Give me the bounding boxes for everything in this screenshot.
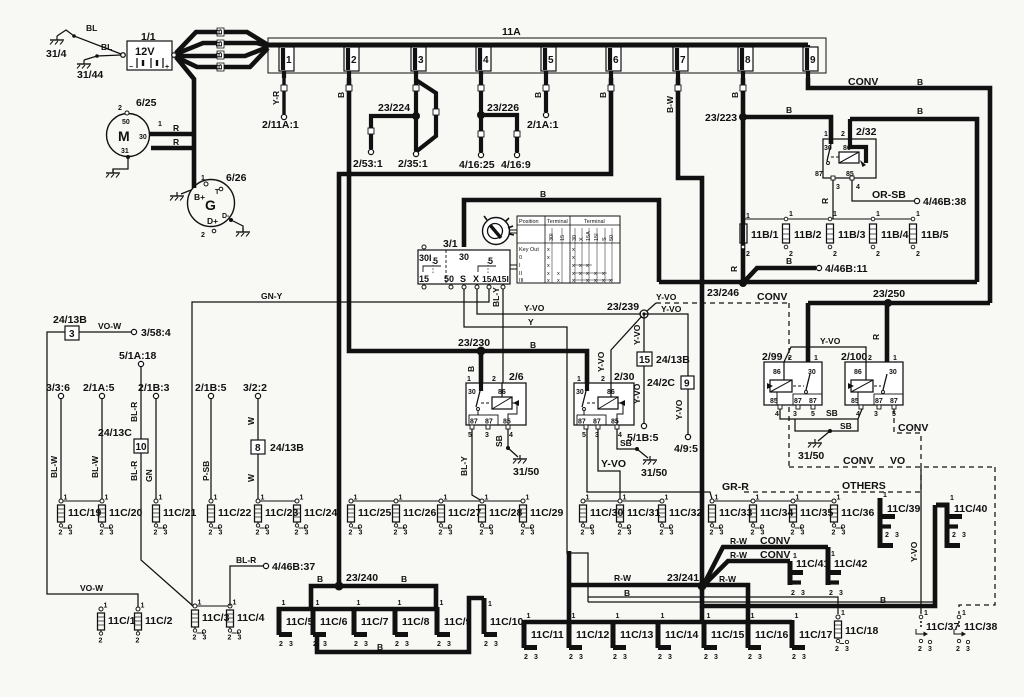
svg-text:50: 50 xyxy=(444,274,454,284)
svg-text:BL-W: BL-W xyxy=(90,455,100,478)
svg-text:CONV: CONV xyxy=(757,291,787,303)
wire Y-VO bridge 2/99 pin2 to 2/100 pin2 xyxy=(784,336,866,362)
svg-text:31: 31 xyxy=(121,148,129,155)
svg-text:15I: 15I xyxy=(497,274,509,284)
svg-text:8: 8 xyxy=(745,55,751,66)
svg-text:x: x xyxy=(547,263,550,269)
wire BL-R 5/1A:18 to box 10 xyxy=(129,367,141,439)
svg-text:30: 30 xyxy=(468,389,476,396)
wire thick 23/240 right branch xyxy=(339,586,436,611)
wire R lower xyxy=(151,137,196,148)
svg-text:3: 3 xyxy=(966,646,970,653)
wire pin1 link 11C/23-24 xyxy=(258,500,297,502)
svg-text:3/3:6: 3/3:6 xyxy=(46,382,70,394)
svg-text:50: 50 xyxy=(122,119,130,126)
svg-text:11C/11: 11C/11 xyxy=(531,629,564,641)
svg-text:23/224: 23/224 xyxy=(378,102,410,114)
relay 2/6 xyxy=(466,371,526,439)
connector 11C/37 xyxy=(916,610,959,653)
fuse 6 xyxy=(606,45,621,78)
svg-text:86: 86 xyxy=(773,369,781,376)
svg-text:B: B xyxy=(786,256,792,266)
connector 11C/39 xyxy=(880,492,920,548)
node 23/250 xyxy=(873,288,905,307)
svg-text:15: 15 xyxy=(419,274,429,284)
connector 11C/13 xyxy=(613,613,653,661)
svg-text:R-W: R-W xyxy=(730,550,748,560)
connector 11C/20 xyxy=(99,495,143,537)
fuse 4 xyxy=(476,45,491,78)
svg-text:2: 2 xyxy=(601,376,605,383)
svg-text:R: R xyxy=(820,198,830,204)
wire thin to 11C/18 xyxy=(588,597,838,614)
svg-text:3: 3 xyxy=(928,646,932,653)
wire BL-R 11C/4 to 4/46B:37 xyxy=(230,555,315,606)
svg-text:4: 4 xyxy=(775,411,779,418)
svg-text:M: M xyxy=(118,128,130,144)
svg-text:10: 10 xyxy=(136,442,148,453)
svg-text:VO: VO xyxy=(890,455,905,467)
svg-text:x: x xyxy=(586,263,589,269)
svg-text:11C/22: 11C/22 xyxy=(218,507,251,519)
svg-text:1: 1 xyxy=(916,211,920,218)
connector 11C/34 xyxy=(750,495,794,537)
svg-text:2: 2 xyxy=(952,532,956,539)
svg-text:2/1A:5: 2/1A:5 xyxy=(83,382,115,394)
svg-text:B: B xyxy=(540,189,546,199)
fuse 1 xyxy=(279,45,294,78)
svg-text:4: 4 xyxy=(856,184,860,191)
svg-text:31/44: 31/44 xyxy=(77,69,103,81)
bus bar xyxy=(268,43,808,48)
wire SB between relay 85 pins xyxy=(780,408,862,419)
wire B from ignition 30 xyxy=(464,189,659,282)
svg-text:4/46B:38: 4/46B:38 xyxy=(923,196,966,208)
svg-text:11C/34: 11C/34 xyxy=(760,507,793,519)
terminal 2/1B:3 xyxy=(138,382,170,399)
svg-text:GN-Y: GN-Y xyxy=(261,291,283,301)
svg-text:1: 1 xyxy=(814,355,818,362)
node 23/239 xyxy=(607,301,648,318)
connector 11C/17 xyxy=(792,613,832,661)
svg-text:11C/27: 11C/27 xyxy=(448,507,481,519)
wire Y-R fuse1 to 2/11A:1 xyxy=(262,78,299,131)
wire Y-VO 2/30 pin3 to 11C/31 xyxy=(598,429,626,499)
connector 11C/28 xyxy=(479,495,523,537)
svg-text:R-W: R-W xyxy=(614,573,632,583)
svg-text:23/223: 23/223 xyxy=(705,112,737,124)
svg-text:2/53:1: 2/53:1 xyxy=(353,158,383,170)
relay 2/30 xyxy=(574,371,635,439)
wire R 2/32 pin3 to 11B/3 xyxy=(820,180,833,219)
svg-text:+: + xyxy=(165,64,169,71)
svg-text:x: x xyxy=(572,278,575,284)
fuse 11B/4 xyxy=(870,211,909,258)
svg-text:Y-VO: Y-VO xyxy=(596,351,606,372)
wire SB 2/30 pin4 to ground 31/50 xyxy=(617,429,648,458)
ground below M xyxy=(106,159,128,178)
wire BL-R box10 to 11C/3 xyxy=(129,453,193,606)
ground 31/44 xyxy=(77,54,121,81)
svg-text:Y-R: Y-R xyxy=(271,91,281,105)
connector 11C/21 xyxy=(153,495,197,537)
connector 11C/26 xyxy=(393,495,437,537)
connector 11C/16 xyxy=(748,613,788,661)
svg-text:2/11A:1: 2/11A:1 xyxy=(262,119,299,131)
svg-text:15: 15 xyxy=(639,355,651,366)
svg-text:3: 3 xyxy=(494,641,498,648)
wire B thick bottom to 11C/40 xyxy=(702,505,935,606)
switch position table xyxy=(517,216,620,284)
svg-text:23/241: 23/241 xyxy=(667,572,699,584)
motor M 6/25 xyxy=(107,97,163,159)
svg-text:CONV: CONV xyxy=(843,455,873,467)
svg-text:D-: D- xyxy=(222,213,230,220)
svg-text:2: 2 xyxy=(916,251,920,258)
svg-text:B: B xyxy=(214,29,224,35)
svg-text:3: 3 xyxy=(895,532,899,539)
wire pin1 link 11C/19-20 xyxy=(61,500,102,502)
svg-text:2: 2 xyxy=(492,376,496,383)
svg-text:SB: SB xyxy=(826,408,838,418)
svg-text:x: x xyxy=(547,247,550,253)
connector 11C/35 xyxy=(790,495,834,537)
wire B fuse6 down-left to 23/230 xyxy=(339,78,614,586)
svg-text:6: 6 xyxy=(613,55,619,66)
svg-text:1: 1 xyxy=(824,131,828,138)
svg-text:x: x xyxy=(579,271,582,277)
connector 11C/31 xyxy=(617,495,661,537)
svg-text:3: 3 xyxy=(874,411,878,418)
svg-text:2/99: 2/99 xyxy=(762,351,783,363)
svg-text:3: 3 xyxy=(845,646,849,653)
node 23/224 xyxy=(378,102,420,120)
node 23/230 xyxy=(458,337,490,356)
svg-text:87: 87 xyxy=(809,398,817,405)
connector 11C/27 xyxy=(438,495,482,537)
svg-text:x: x xyxy=(557,271,560,277)
key symbol xyxy=(483,216,518,269)
wire R-W horizontal through 23/241 xyxy=(569,573,748,622)
svg-text:S: S xyxy=(460,274,466,284)
svg-text:24/2C: 24/2C xyxy=(647,377,675,389)
svg-text:11C/3: 11C/3 xyxy=(202,612,230,624)
svg-text:B: B xyxy=(730,92,740,98)
svg-text:2/6: 2/6 xyxy=(509,371,524,383)
svg-text:11C/16: 11C/16 xyxy=(755,629,788,641)
connector 11C/5 xyxy=(279,600,314,648)
fuse box 11A outline xyxy=(268,26,826,73)
svg-text:23/250: 23/250 xyxy=(873,288,905,300)
node 23/240 xyxy=(317,572,407,591)
svg-text:2: 2 xyxy=(876,251,880,258)
svg-text:11C/20: 11C/20 xyxy=(109,507,142,519)
fuse 11B/2 xyxy=(783,211,822,258)
svg-text:CONV: CONV xyxy=(760,549,790,561)
svg-text:8: 8 xyxy=(255,443,261,454)
svg-text:11C/19: 11C/19 xyxy=(68,507,101,519)
svg-text:1: 1 xyxy=(789,211,793,218)
svg-text:11C/6: 11C/6 xyxy=(320,616,348,628)
svg-text:B: B xyxy=(377,642,383,652)
connector 11C/7 xyxy=(354,600,389,648)
svg-text:2: 2 xyxy=(918,646,922,653)
svg-text:11C/8: 11C/8 xyxy=(402,616,430,628)
wire W box8 to 11C/23 xyxy=(246,454,258,499)
svg-text:3/2:2: 3/2:2 xyxy=(243,382,267,394)
svg-text:2: 2 xyxy=(118,105,122,112)
wire B fuse4 to 4/16:25 xyxy=(459,78,495,171)
svg-text:G: G xyxy=(205,197,216,213)
wire R-W CONV lower to 11C/41 xyxy=(704,549,790,585)
svg-text:VO-W: VO-W xyxy=(98,321,122,331)
svg-text:B: B xyxy=(917,77,923,87)
svg-text:30: 30 xyxy=(576,389,584,396)
svg-text:24/13C: 24/13C xyxy=(98,427,132,439)
dashed OTHERS xyxy=(744,470,921,492)
svg-text:4: 4 xyxy=(483,55,489,66)
node 23/241 xyxy=(667,572,707,591)
svg-text:85: 85 xyxy=(851,398,859,405)
svg-text:VO-W: VO-W xyxy=(80,583,104,593)
svg-text:1: 1 xyxy=(577,376,581,383)
svg-text:B: B xyxy=(880,595,886,605)
svg-text:11B/4: 11B/4 xyxy=(881,229,909,241)
wire Y-VO right of node to 24/2C xyxy=(644,304,688,376)
svg-text:11C/29: 11C/29 xyxy=(530,507,563,519)
wire VO-W box3 to 3/58:4 xyxy=(79,321,171,339)
svg-text:OR-SB: OR-SB xyxy=(872,189,906,201)
connector 11C/42 xyxy=(828,547,867,597)
svg-text:SB: SB xyxy=(840,421,852,431)
svg-text:OTHERS: OTHERS xyxy=(842,480,886,492)
terminal 2/1B:5 xyxy=(195,382,227,399)
svg-text:11C/32: 11C/32 xyxy=(669,507,702,519)
connector 11C/6 xyxy=(313,600,348,648)
wire B 23/224 to 2/53:1 xyxy=(353,116,416,170)
wire thick 11C/15 feed through xyxy=(700,606,705,622)
svg-text:B: B xyxy=(214,64,224,70)
svg-text:85: 85 xyxy=(611,419,619,426)
svg-text:B: B xyxy=(214,41,224,47)
svg-text:0: 0 xyxy=(519,255,522,261)
wire B loop 11C/6 to 11C/10 xyxy=(317,598,484,652)
svg-text:30I: 30I xyxy=(419,253,432,263)
wire thick 23/240 left branch xyxy=(311,586,339,611)
svg-text:2: 2 xyxy=(841,131,845,138)
svg-text:1: 1 xyxy=(833,211,837,218)
connector 11C/22 xyxy=(208,495,252,537)
wire GR-R 2/30 pin5 to 11C/33 xyxy=(587,429,749,499)
fuse 9 xyxy=(803,45,818,78)
svg-text:31/50: 31/50 xyxy=(798,450,824,462)
svg-text:23/226: 23/226 xyxy=(487,102,519,114)
ground 31/4 xyxy=(46,30,121,60)
wire BL-W to 11C/20 xyxy=(90,399,102,499)
svg-text:2/100: 2/100 xyxy=(841,351,867,363)
svg-text:11C/2: 11C/2 xyxy=(145,615,173,627)
svg-text:W: W xyxy=(246,416,256,425)
wire B 23/230 down to 2/6 pin1 xyxy=(466,351,481,388)
terminal 2/1A:5 xyxy=(83,382,115,399)
svg-text:4/46B:11: 4/46B:11 xyxy=(825,263,868,275)
svg-text:x: x xyxy=(579,263,582,269)
wire SB to ground xyxy=(795,419,858,441)
connector 11C/1 xyxy=(98,603,136,645)
svg-text:1: 1 xyxy=(831,551,835,558)
connector 11C/36 xyxy=(831,495,875,537)
svg-text:11C/15: 11C/15 xyxy=(711,629,744,641)
dashed CONV right vertical xyxy=(959,467,995,614)
svg-text:x: x xyxy=(602,278,605,284)
svg-text:1: 1 xyxy=(893,355,897,362)
svg-text:x: x xyxy=(586,271,589,277)
svg-text:11C/13: 11C/13 xyxy=(620,629,653,641)
svg-text:11C/25: 11C/25 xyxy=(358,507,391,519)
svg-text:GR-R: GR-R xyxy=(722,481,749,493)
generator G 6/26 xyxy=(188,172,247,239)
connector 11C/38 xyxy=(954,610,997,653)
connector 11C/9 xyxy=(437,600,472,648)
svg-text:1: 1 xyxy=(286,55,292,66)
svg-text:2/1B:5: 2/1B:5 xyxy=(195,382,227,394)
svg-text:Terminal: Terminal xyxy=(547,219,568,225)
svg-text:3: 3 xyxy=(69,329,75,340)
svg-text:1: 1 xyxy=(841,610,845,617)
svg-text:−: − xyxy=(129,64,133,71)
connector 11C/12 xyxy=(569,613,609,661)
svg-text:11C/14: 11C/14 xyxy=(665,629,698,641)
wire pin1 link 11C/33-36 xyxy=(712,500,834,502)
svg-text:Y-VO: Y-VO xyxy=(820,336,841,346)
svg-text:Y-VO: Y-VO xyxy=(524,303,545,313)
fuse 8 xyxy=(738,45,753,78)
wire Y-VO to 5/1B:5 xyxy=(627,366,659,444)
connector 11C/40 xyxy=(936,495,987,548)
svg-text:2/1B:3: 2/1B:3 xyxy=(138,382,170,394)
svg-text:87: 87 xyxy=(593,419,601,426)
wire R M30 to battery feed xyxy=(150,123,196,134)
svg-text:3: 3 xyxy=(836,184,840,191)
svg-text:Terminal: Terminal xyxy=(584,219,605,225)
svg-text:11C/1: 11C/1 xyxy=(108,615,136,627)
box 3 24/13B xyxy=(53,314,87,340)
svg-text:11B/2: 11B/2 xyxy=(794,229,822,241)
svg-text:1: 1 xyxy=(201,175,205,182)
svg-text:11C/12: 11C/12 xyxy=(576,629,609,641)
svg-text:Y-VO: Y-VO xyxy=(661,304,682,314)
svg-text:SB: SB xyxy=(494,435,504,447)
wire pin1 link 11C/25-29 xyxy=(351,500,523,502)
wire R to 2/100 pin30 xyxy=(871,303,887,374)
ground 31/50 left xyxy=(513,455,539,478)
svg-text:x: x xyxy=(572,271,575,277)
svg-text:x: x xyxy=(609,278,612,284)
svg-text:B: B xyxy=(214,52,224,58)
svg-text:86: 86 xyxy=(854,369,862,376)
svg-text:R: R xyxy=(173,123,179,133)
svg-text:31/50: 31/50 xyxy=(513,466,539,478)
svg-text:85: 85 xyxy=(503,419,511,426)
svg-text:GN: GN xyxy=(144,469,154,482)
svg-text:12V: 12V xyxy=(135,46,155,58)
terminal 3/3:6 xyxy=(46,382,70,399)
svg-text:11C/17: 11C/17 xyxy=(799,629,832,641)
svg-text:1: 1 xyxy=(467,376,471,383)
connector 11C/18 xyxy=(835,610,879,653)
svg-text:2: 2 xyxy=(746,251,750,258)
svg-text:4/9:5: 4/9:5 xyxy=(674,443,698,455)
connector 11C/15 xyxy=(704,613,744,661)
svg-text:3: 3 xyxy=(962,532,966,539)
svg-text:11C/41: 11C/41 xyxy=(796,558,829,570)
svg-text:P-SB: P-SB xyxy=(201,461,211,481)
svg-text:BL-W: BL-W xyxy=(49,455,59,478)
dashed CONV from 2/100 pin5 xyxy=(894,409,928,467)
svg-text:SB: SB xyxy=(620,438,632,448)
svg-text:3: 3 xyxy=(839,590,843,597)
wire SB 2/6 pin4 to ground 31/50 xyxy=(494,429,518,457)
wire Y-VO down from 23/239 xyxy=(632,314,644,352)
svg-text:R: R xyxy=(173,137,179,147)
svg-text:4/46B:37: 4/46B:37 xyxy=(272,561,315,573)
svg-text:2: 2 xyxy=(885,532,889,539)
dashed CONV VO bottom xyxy=(789,455,995,467)
svg-text:B: B xyxy=(530,340,536,350)
svg-text:30: 30 xyxy=(889,369,897,376)
node 23/226 xyxy=(477,102,519,119)
svg-text:87: 87 xyxy=(875,398,883,405)
svg-text:85: 85 xyxy=(770,398,778,405)
svg-text:11B/3: 11B/3 xyxy=(838,229,866,241)
wire bundle B x4 from battery to fuse box xyxy=(176,28,268,71)
node 23/246 xyxy=(707,279,747,299)
svg-text:1/1: 1/1 xyxy=(141,31,156,43)
connector 11C/33 xyxy=(709,495,753,537)
connector 11C/41 xyxy=(790,553,829,597)
svg-text:BL-Y: BL-Y xyxy=(459,456,469,476)
connector 11C/32 xyxy=(659,495,703,537)
svg-text:2: 2 xyxy=(484,641,488,648)
wire thick pin1 bus 11C/5-9 xyxy=(277,607,437,612)
wire Y-VO to 4/9:5 xyxy=(674,389,698,455)
svg-text:23/230: 23/230 xyxy=(458,337,490,349)
wire Y-VO from X terminal to 23/239 xyxy=(477,289,641,314)
svg-text:X: X xyxy=(473,274,479,284)
connector 11C/23 xyxy=(255,495,299,537)
svg-text:2: 2 xyxy=(833,251,837,258)
wire BL-Y 2/6 pin5 to 11C/28 xyxy=(459,429,482,501)
svg-text:5: 5 xyxy=(811,411,815,418)
connector 11C/14 xyxy=(658,613,698,661)
connector 11C/11 xyxy=(524,613,564,661)
svg-text:11C/40: 11C/40 xyxy=(954,503,987,515)
wire GN-Y from 15A terminal xyxy=(192,289,489,606)
svg-text:23/240: 23/240 xyxy=(346,572,378,584)
wire B fuse3 to 2/35:1 xyxy=(398,78,428,170)
svg-text:1: 1 xyxy=(962,610,966,617)
svg-text:3: 3 xyxy=(485,432,489,439)
svg-text:CONV: CONV xyxy=(898,422,928,434)
wire thick 304 horizontal xyxy=(808,301,990,306)
wire pin1 link 11C/3-4 xyxy=(192,605,230,607)
svg-text:R-W: R-W xyxy=(730,536,748,546)
svg-text:1: 1 xyxy=(488,601,492,608)
svg-text:x: x xyxy=(572,247,575,253)
svg-text:5: 5 xyxy=(582,432,586,439)
svg-text:2: 2 xyxy=(791,590,795,597)
wire B 23/230 to 2/30 pin1 xyxy=(481,340,587,388)
